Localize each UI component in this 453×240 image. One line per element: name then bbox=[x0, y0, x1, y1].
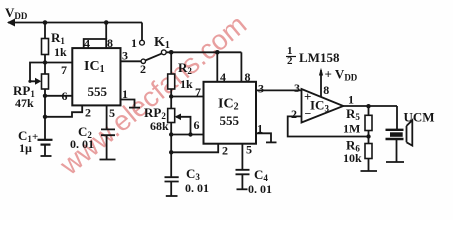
svg-text:2: 2 bbox=[222, 144, 228, 158]
svg-text:8: 8 bbox=[323, 83, 329, 97]
ground IC2 pin1 bbox=[266, 141, 277, 143]
node dot R2-pin7 bbox=[169, 94, 173, 98]
resistor R6 bbox=[365, 144, 372, 159]
VDD rail arrowhead bbox=[7, 19, 15, 27]
resistor R2 bbox=[168, 74, 175, 89]
wire UCM drop bbox=[396, 106, 398, 129]
wire RP2 wiper bbox=[176, 117, 191, 135]
node dot RP1 wiper bbox=[28, 80, 31, 83]
svg-text:1: 1 bbox=[348, 92, 354, 106]
svg-text:1: 1 bbox=[131, 36, 137, 50]
node dot RP1-pin6 bbox=[43, 94, 47, 98]
wire rail to C3 bbox=[170, 135, 172, 177]
node dot feedback-R5R6 bbox=[366, 134, 370, 138]
svg-text:0. 01: 0. 01 bbox=[248, 182, 272, 196]
earphone UCM plates bbox=[386, 130, 404, 139]
wire IC1 power drop bbox=[105, 23, 107, 40]
wire pin5 IC2 to C4 bbox=[241, 144, 243, 170]
earphone UCM cone bbox=[407, 120, 413, 145]
wire C1 lead bbox=[44, 117, 46, 156]
wire pins 4 8 bracket IC1 bbox=[84, 39, 107, 48]
svg-text:LM158: LM158 bbox=[299, 50, 340, 65]
svg-text:8: 8 bbox=[245, 70, 251, 84]
wire RP1 wiper bbox=[30, 63, 45, 82]
svg-text:0. 01: 0. 01 bbox=[70, 137, 94, 151]
svg-text:R1: R1 bbox=[51, 30, 65, 46]
svg-text:2: 2 bbox=[291, 107, 297, 121]
node dot pin2-C3 bbox=[169, 150, 173, 154]
ground C1 bbox=[41, 155, 52, 157]
svg-text:8: 8 bbox=[107, 36, 113, 50]
wire IC2 pin4 drop bbox=[216, 52, 218, 82]
K1 contact 2 circle bbox=[141, 59, 145, 63]
svg-text:3: 3 bbox=[258, 82, 264, 96]
capacitor C2 plates bbox=[101, 129, 115, 135]
svg-text:1M: 1M bbox=[343, 122, 360, 136]
node dot output-R5 bbox=[366, 104, 370, 108]
ground R6 bbox=[361, 170, 378, 172]
op-amp U1 triangle bbox=[302, 89, 344, 123]
svg-text:UCM: UCM bbox=[404, 110, 435, 125]
svg-text:10k: 10k bbox=[343, 151, 362, 165]
svg-text:C4: C4 bbox=[254, 167, 268, 183]
svg-text:1µ: 1µ bbox=[19, 141, 32, 155]
wire C4 lead bbox=[241, 174, 243, 189]
+VDD arrowhead bbox=[319, 68, 323, 76]
svg-text:0. 01: 0. 01 bbox=[185, 181, 209, 195]
wire R5 bbox=[368, 106, 370, 137]
wire IC2 pin8 drop bbox=[240, 52, 242, 82]
K1 pole circle bbox=[161, 50, 166, 55]
ground C2 bbox=[100, 159, 116, 161]
svg-text:2: 2 bbox=[140, 62, 146, 76]
svg-text:C3: C3 bbox=[186, 166, 200, 182]
capacitor C3 plates bbox=[165, 177, 179, 181]
IC1 555 box bbox=[72, 48, 120, 105]
svg-text:1: 1 bbox=[122, 87, 128, 101]
wire RP2 body leads bbox=[170, 97, 172, 135]
node dot RP2-pin6 bbox=[169, 132, 173, 136]
svg-text:7: 7 bbox=[195, 85, 201, 99]
wire UCM lead bbox=[396, 139, 398, 162]
svg-text:3: 3 bbox=[122, 49, 128, 63]
resistor RP2 body bbox=[168, 109, 175, 123]
svg-text:3: 3 bbox=[294, 81, 300, 95]
K1 contact 1 circle bbox=[140, 40, 145, 45]
svg-text:5: 5 bbox=[246, 143, 252, 157]
RP1 wiper arrowhead bbox=[35, 78, 41, 85]
svg-text:7: 7 bbox=[61, 63, 67, 77]
wire K1 contact1 drop bbox=[141, 23, 143, 41]
node dot rail-pin4 bbox=[215, 50, 220, 55]
capacitor C1 plates (electrolytic) bbox=[38, 140, 53, 145]
wire C3 lead bbox=[170, 182, 172, 196]
svg-text:+ VDD: + VDD bbox=[325, 67, 358, 83]
wire op-amp pin8 to VDD bbox=[320, 70, 322, 97]
ground C4 bbox=[237, 188, 248, 190]
resistor R5 bbox=[365, 115, 372, 130]
node dot wiper-pin6 bbox=[188, 132, 192, 136]
wire right rail bbox=[166, 51, 242, 53]
wire C2 lead bbox=[106, 135, 108, 159]
svg-text:6: 6 bbox=[62, 89, 68, 103]
svg-text:2: 2 bbox=[85, 106, 91, 120]
ground IC1 pin1 bbox=[129, 107, 140, 109]
resistor R1 bbox=[42, 39, 49, 55]
wire pin3 IC2 to op-amp bbox=[256, 89, 302, 91]
wire pin6 IC2 bbox=[171, 134, 203, 136]
ground UCM bbox=[386, 161, 404, 163]
svg-text:4: 4 bbox=[84, 37, 90, 51]
svg-text:1: 1 bbox=[257, 122, 263, 136]
node dot VDD-IC1 power bbox=[104, 20, 109, 25]
wire pin1 IC1 bbox=[121, 100, 135, 107]
svg-text:6: 6 bbox=[194, 118, 200, 132]
resistor RP1 body bbox=[42, 74, 49, 89]
RP2 wiper arrowhead bbox=[175, 114, 181, 121]
wire pin7 IC2 bbox=[171, 96, 203, 98]
svg-text:1k: 1k bbox=[180, 77, 193, 91]
watermark bbox=[53, 9, 252, 182]
svg-text:R5: R5 bbox=[346, 106, 360, 122]
wire R1 drop bbox=[44, 23, 46, 63]
svg-text:VDD: VDD bbox=[5, 5, 28, 21]
svg-text:1k: 1k bbox=[54, 45, 67, 59]
wire pin1 IC2 bbox=[256, 133, 271, 142]
wire op-amp pin2 feedback bbox=[288, 116, 369, 136]
ground C3 bbox=[166, 195, 178, 197]
VDD rail wire bbox=[8, 22, 142, 24]
node dot pin2-C1 bbox=[43, 115, 47, 119]
IC2 555 box bbox=[204, 82, 257, 144]
node dot R1-pin7 bbox=[43, 60, 47, 64]
wire op-amp output bbox=[343, 105, 397, 107]
wire pin2 IC1 bbox=[45, 105, 82, 116]
svg-text:5: 5 bbox=[109, 106, 115, 120]
wire pin2 IC2 bbox=[171, 144, 218, 153]
svg-text:555: 555 bbox=[88, 84, 108, 99]
svg-text:+: + bbox=[32, 131, 38, 143]
wire pin7 IC1 bbox=[45, 62, 72, 64]
wire R2 bbox=[170, 52, 172, 96]
wire RP1 to pin6 bbox=[44, 63, 46, 117]
svg-text:555: 555 bbox=[220, 113, 240, 128]
svg-text:4: 4 bbox=[220, 70, 226, 84]
node dot VDD-R1 bbox=[43, 20, 48, 25]
earphone UCM crystal bbox=[390, 132, 403, 137]
wire pin3 IC1 to K1 contact2 bbox=[121, 60, 142, 62]
wire R6 bbox=[368, 137, 370, 171]
node dot rail-R2 bbox=[169, 50, 174, 55]
capacitor C4 plates bbox=[236, 170, 250, 175]
wire pin5 IC1 to C2 bbox=[106, 105, 108, 129]
K1 switch arm bbox=[145, 53, 162, 60]
svg-text:68k: 68k bbox=[150, 119, 169, 133]
wire pin6 IC1 bbox=[45, 95, 72, 97]
svg-text:K1: K1 bbox=[154, 35, 170, 51]
svg-text:47k: 47k bbox=[15, 96, 34, 110]
